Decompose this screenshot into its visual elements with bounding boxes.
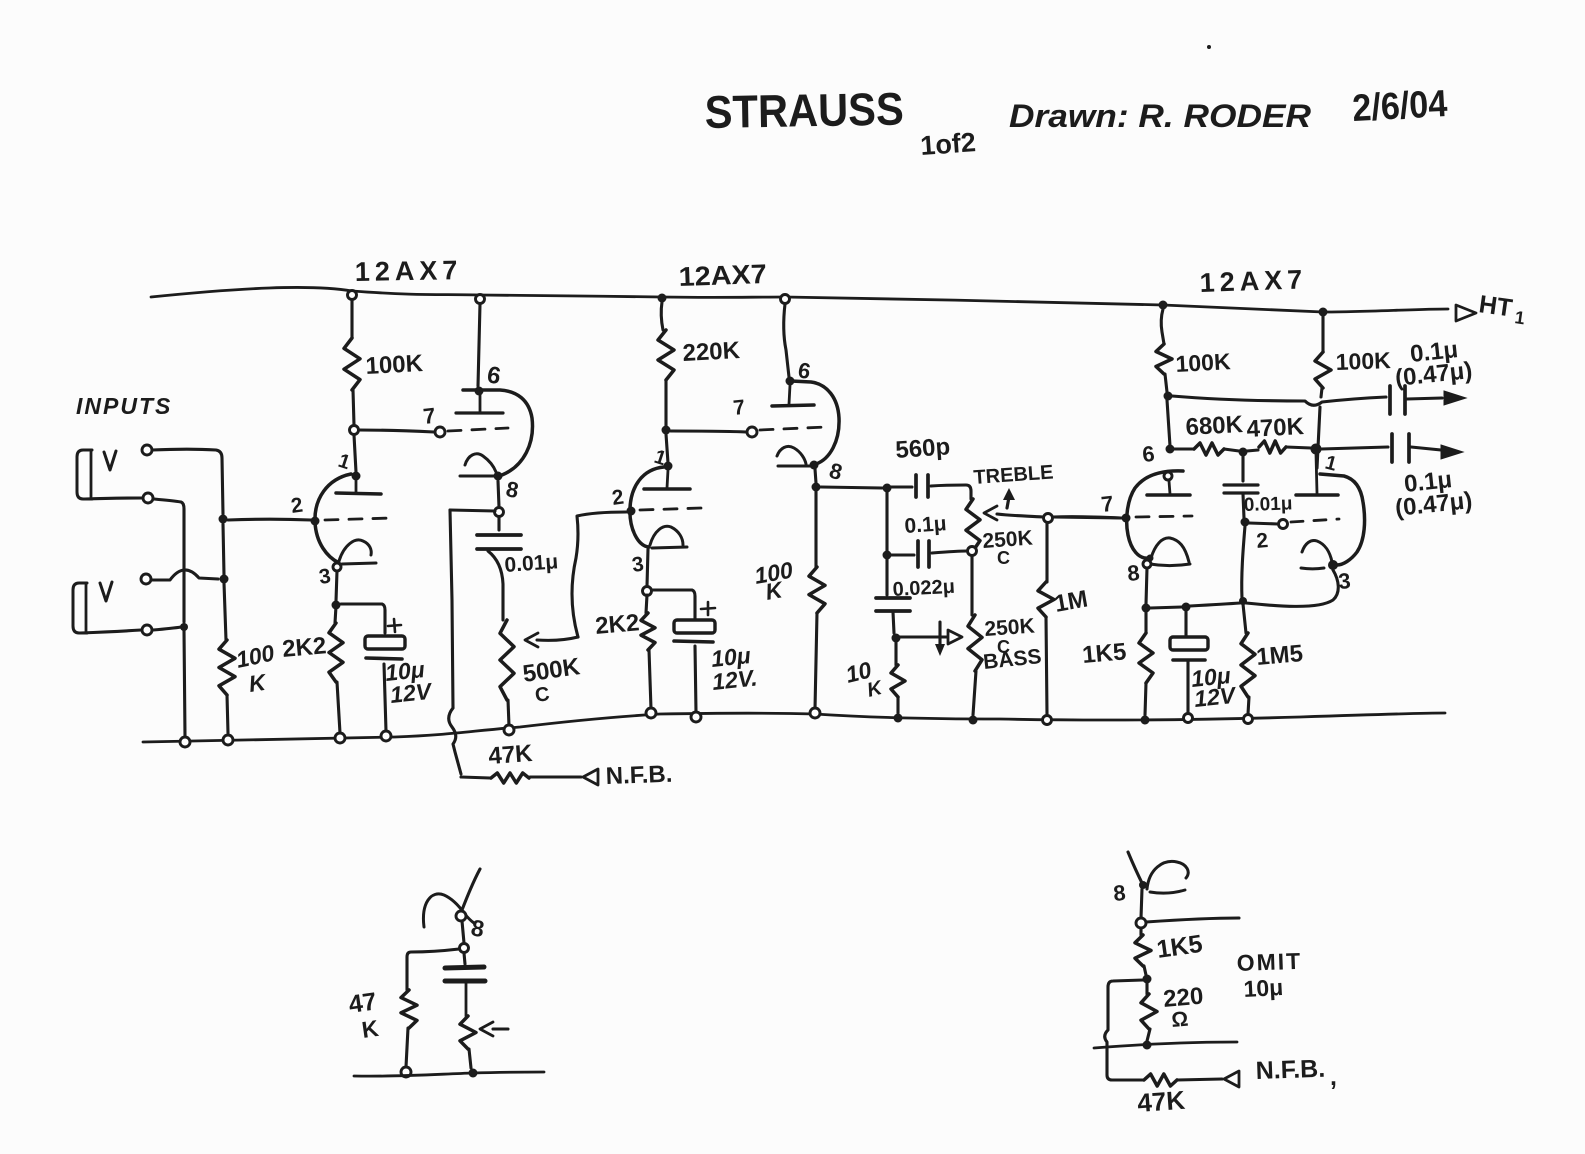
svg-text:1of2: 1of2	[919, 127, 976, 161]
wire bottom rail	[143, 713, 1445, 742]
svg-text:100K: 100K	[1175, 348, 1232, 377]
wire pin8 to tone stack	[821, 487, 882, 488]
svg-text:470K: 470K	[1246, 413, 1305, 443]
triode V1b envelope	[463, 390, 532, 475]
junction 220K at rail	[658, 294, 667, 303]
label 47 left sub	[347, 987, 381, 1043]
svg-text:OMIT: OMIT	[1236, 948, 1302, 976]
junction tone mid	[883, 551, 892, 560]
svg-text:STRAUSS: STRAUSS	[704, 83, 904, 138]
terminal 1M at rail	[1043, 716, 1052, 725]
treble up arrow	[1003, 488, 1015, 508]
junction bass wiper node	[892, 634, 901, 643]
junction stage3 right at rail	[1319, 308, 1328, 317]
label pin2 V2a	[610, 486, 625, 510]
label 12V stage3	[1193, 682, 1238, 712]
label 10u stage2	[710, 642, 752, 672]
label 1K5 right sub	[1155, 930, 1204, 964]
capacitor 0.01u stage3	[1224, 455, 1258, 518]
capacitor 0.1u out2	[1392, 434, 1441, 462]
pot 500K wiper arrow	[525, 633, 578, 647]
label pin1 V3b	[1323, 452, 1339, 476]
label NFB stage1	[605, 761, 673, 790]
jack J1 tip terminal	[142, 445, 152, 455]
triode V3b plate lead	[1316, 454, 1317, 493]
resistor 2K2 stage2	[641, 595, 655, 709]
resistor 220K	[658, 330, 674, 380]
triode V3a envelope	[1127, 471, 1183, 558]
junction bass at rail	[969, 716, 978, 725]
wire J1 sleeve	[85, 498, 142, 499]
label pin8 left sub	[469, 914, 486, 942]
triode V3a grid dashes	[1136, 516, 1192, 517]
label pin1 V2a	[651, 446, 668, 470]
arrow NFB stage1	[583, 769, 598, 785]
terminal 10u s3 at rail	[1184, 714, 1193, 723]
junction grid entry V1a	[311, 517, 320, 526]
triode V3a cathode	[1150, 538, 1190, 566]
svg-text:8: 8	[1126, 560, 1140, 586]
wire grid dashes V1b	[448, 428, 508, 431]
wire output1	[1172, 396, 1386, 405]
svg-text:N.F.B.: N.F.B.	[605, 761, 673, 790]
triode V1a grid dashes	[325, 518, 392, 520]
svg-text:,: ,	[1330, 1063, 1337, 1091]
wire to pin2 V3b	[1249, 523, 1278, 524]
resistor 1K5 right sub	[1135, 928, 1151, 975]
pin 2 terminal V3b	[1279, 520, 1288, 529]
capacitor 10u stage2	[674, 620, 715, 642]
wire J2 tip with hop	[152, 570, 218, 580]
junction sleeve line	[180, 623, 188, 631]
junction plate node stage2	[662, 426, 671, 435]
wire tone vertical	[885, 492, 888, 551]
terminal 100K at rail	[223, 735, 233, 745]
label 680K	[1185, 411, 1244, 441]
terminal 500K at rail	[504, 725, 514, 735]
label 1K5 stage3	[1081, 638, 1127, 669]
svg-text:7: 7	[422, 403, 437, 429]
terminal 1M5 at rail	[1244, 715, 1253, 724]
capacitor 0.1u out1	[1390, 386, 1442, 414]
jack J2 tip terminal	[141, 574, 151, 584]
potentiometer 500K	[500, 620, 514, 726]
svg-text:1K5: 1K5	[1081, 638, 1127, 669]
terminal V2b pin6 at rail	[781, 295, 790, 304]
wire cathode V3a down	[1146, 568, 1147, 604]
resistor 47K left sub	[401, 990, 417, 1067]
potentiometer treble 250K	[966, 499, 980, 551]
wire J1 sleeve to ground line	[154, 499, 184, 622]
label 12AX7 second	[678, 259, 767, 292]
wire 680K line lead	[1167, 400, 1170, 446]
capacitor 0.1u tone	[891, 541, 967, 567]
svg-text:0.022μ: 0.022μ	[892, 576, 955, 601]
svg-text:100K: 100K	[365, 350, 424, 380]
wire 100K s3 left bottom	[1165, 374, 1167, 392]
wire ground line down	[184, 630, 185, 737]
label 470K	[1246, 413, 1305, 443]
label 100K stage3 left	[1175, 348, 1232, 377]
junction V3b cathode net	[1239, 597, 1247, 605]
jack J1 barrel	[77, 450, 92, 499]
wire 220K top lead	[661, 302, 663, 330]
label 1M	[1052, 586, 1090, 618]
wire 10u node right	[1190, 603, 1240, 606]
wire stub top left sub	[462, 869, 480, 910]
pin 3 terminal V2a	[643, 587, 652, 596]
label bass C	[997, 637, 1010, 657]
wire 10u s3 lead	[1184, 611, 1187, 635]
svg-text:Ω: Ω	[1170, 1008, 1189, 1032]
junction input node J2 tip	[220, 575, 229, 584]
label BASS	[982, 645, 1042, 674]
label HT1	[1477, 290, 1526, 328]
label pin3 V1a	[317, 565, 332, 589]
junction tone stack input	[883, 484, 892, 493]
triode V2a cathode	[650, 526, 687, 548]
label 2K2 stage2	[594, 609, 640, 640]
label treble C	[997, 548, 1010, 568]
wire cathode V1a down	[336, 571, 337, 601]
svg-text:12V: 12V	[389, 678, 434, 708]
label 500K	[521, 653, 582, 688]
svg-text:0.01μ: 0.01μ	[1243, 493, 1292, 516]
svg-text:1M: 1M	[1052, 586, 1090, 618]
svg-text:12AX7: 12AX7	[1199, 264, 1308, 298]
capacitor 10u stage1	[365, 636, 405, 659]
triode V2b cathode	[777, 446, 812, 466]
wire 100K s3 left lead	[1161, 309, 1164, 344]
wire grid stage1	[228, 518, 311, 522]
wire to 10u stage2	[652, 590, 695, 619]
wire V1b plate lead	[478, 304, 480, 386]
label pin1 V1a	[335, 450, 352, 474]
potentiometer bass 250K	[968, 556, 982, 715]
svg-text:10μ: 10μ	[1243, 974, 1284, 1002]
wire output2	[1321, 447, 1388, 449]
junction 10K at rail	[894, 714, 903, 723]
wire 10u stage1 down	[384, 664, 386, 731]
wire J2 sleeve	[80, 630, 141, 633]
triode V1b cathode	[460, 454, 496, 476]
wire node to 47K left sub	[407, 949, 459, 990]
label pin2 V1a	[289, 494, 304, 518]
terminal 2K2 at rail	[335, 733, 345, 743]
junction input node grid tap	[219, 515, 228, 524]
junction output1 tap	[1164, 392, 1173, 401]
label TREBLE	[973, 461, 1054, 489]
label 10u stage3	[1190, 662, 1232, 692]
svg-text:47K: 47K	[488, 740, 534, 770]
arrow output1	[1444, 391, 1466, 405]
triode V3b envelope	[1320, 474, 1365, 565]
arrow output2	[1441, 445, 1463, 459]
label pin2 V3b	[1255, 529, 1269, 553]
wire NFB to arrow	[530, 775, 581, 778]
wire HT rail	[151, 287, 1448, 312]
wire pin3 swoop	[1246, 570, 1338, 606]
junction output2 tap	[1311, 444, 1322, 455]
svg-text:220K: 220K	[682, 337, 741, 367]
junction pot at rail left sub	[469, 1069, 478, 1078]
label 12AX7 first	[355, 255, 463, 287]
capacitor left sub	[445, 953, 485, 1016]
stray mark	[1207, 45, 1211, 49]
wire wiper to stage2 grid	[572, 512, 626, 637]
label pin6 V2b	[796, 357, 812, 384]
terminal ground line at rail	[180, 737, 190, 747]
svg-text:47K: 47K	[1136, 1085, 1186, 1118]
junction 680K-470K	[1239, 448, 1248, 457]
svg-text:680K: 680K	[1185, 411, 1244, 441]
label 100K stage1	[365, 350, 424, 380]
label omit 10u	[1243, 974, 1284, 1002]
jack J2 barrel	[73, 583, 87, 633]
capacitor 560p	[888, 475, 971, 499]
wire pin8 down left sub	[462, 921, 464, 943]
wire cathode to 10u s3	[1150, 607, 1182, 608]
capacitor 10u stage2 plus	[701, 602, 715, 615]
label 47K right sub	[1136, 1085, 1186, 1118]
triode V2a envelope	[630, 467, 664, 547]
svg-text:12V: 12V	[1193, 682, 1238, 712]
terminal V1b pin6 at rail	[476, 295, 485, 304]
triode cathode arc right sub	[1147, 861, 1188, 893]
label 10K	[843, 656, 886, 701]
wire pin8 down right sub	[1141, 889, 1142, 918]
label NFB right sub	[1255, 1055, 1337, 1091]
bass down arrow	[935, 622, 945, 656]
svg-text:1M5: 1M5	[1255, 640, 1304, 671]
wire input node down	[223, 524, 224, 575]
wire node to NFB line	[450, 510, 495, 511]
wire pin8 to node	[498, 481, 499, 507]
triode V1a cathode	[339, 540, 376, 564]
resistor 47K NFB	[461, 773, 529, 783]
terminal 10u stage2 at rail	[691, 712, 701, 722]
label 0.1u out2	[1394, 466, 1474, 522]
junction cathode net V1a	[332, 601, 341, 610]
terminal plate R at HT rail	[348, 291, 357, 300]
junction V1b pin6	[475, 387, 484, 396]
wire plate R to node	[353, 390, 354, 425]
svg-text:INPUTS: INPUTS	[76, 393, 172, 419]
svg-text:560p: 560p	[895, 433, 951, 464]
junction plate-envelope V2a	[664, 462, 673, 471]
jack J2 tip contact	[100, 582, 112, 601]
wire 10u stage2 down	[695, 646, 696, 712]
title date 2/6/04	[1351, 83, 1448, 130]
resistor 100K stage1 plate	[344, 338, 360, 390]
triode V2b plate bar	[772, 405, 814, 406]
svg-text:2: 2	[1255, 529, 1269, 553]
node treble bottom	[968, 547, 977, 556]
wire plate R lead	[350, 300, 353, 338]
junction grid entry V3a	[1122, 514, 1131, 523]
title STRAUSS	[704, 83, 904, 138]
terminal HT1 arrow	[1456, 305, 1476, 321]
resistor 100K stage3 right	[1315, 352, 1331, 388]
pin 6 terminal V3a	[1164, 472, 1172, 480]
terminal 100K tail at rail	[810, 708, 820, 718]
triode V1a envelope	[315, 474, 351, 563]
wire NFB vertical	[449, 510, 461, 774]
label 0.01u stage3	[1243, 493, 1292, 516]
jack J2 sleeve terminal	[142, 625, 152, 635]
label pin8 V2b	[827, 458, 845, 485]
triode V2a grid dashes	[640, 508, 702, 510]
title sheet number 1of2	[919, 127, 976, 161]
label pin6 V1b	[485, 361, 503, 390]
svg-text:12AX7: 12AX7	[678, 259, 767, 292]
label 220K	[682, 337, 741, 367]
wire grid stage3	[1053, 517, 1121, 518]
jack J1 sleeve terminal	[143, 493, 153, 503]
resistor 100K input grid	[219, 640, 235, 695]
wire cathode V2a down	[647, 549, 648, 586]
wire horizontal right sub	[1094, 1042, 1237, 1048]
wire plate node to pin7 V2b	[671, 431, 746, 432]
label 100K stage3 right	[1335, 347, 1391, 375]
wire treble out to stage3	[1053, 517, 1121, 518]
svg-text:0.1μ: 0.1μ	[904, 512, 948, 538]
label 12AX7 third	[1199, 264, 1308, 298]
wire J1 tip to node	[152, 449, 223, 514]
svg-text:Drawn: R. RODER: Drawn: R. RODER	[1009, 98, 1311, 134]
svg-text:2K2: 2K2	[281, 632, 327, 663]
jack J1 tip contact	[104, 451, 116, 470]
svg-text:12V.: 12V.	[711, 664, 759, 695]
node treble out	[1044, 514, 1053, 523]
label 0.022u	[892, 576, 955, 601]
wire plate node to pin7	[359, 430, 434, 432]
label pin8 V1b	[504, 476, 520, 503]
wire left loop right sub	[1105, 980, 1143, 1080]
capacitor 10u stage3	[1170, 637, 1208, 660]
resistor 220 right sub	[1141, 983, 1157, 1041]
capacitor 10u stage1 plus	[388, 619, 401, 632]
capacitor 0.01u stage1	[477, 517, 521, 620]
svg-text:C: C	[534, 683, 551, 707]
wire rail left sub	[354, 1072, 544, 1076]
label 47K NFB stage1	[488, 740, 534, 770]
junction grid tap V3b	[1241, 518, 1250, 527]
resistor 2K2 stage1	[329, 606, 343, 733]
junction 10u s3 top	[1182, 603, 1191, 612]
label 220 right sub	[1162, 983, 1204, 1013]
svg-text:7: 7	[732, 396, 746, 420]
wire pin8 V2b down	[815, 469, 816, 483]
junction cathode node V2b	[812, 483, 821, 492]
wire to 10u stage1	[341, 604, 385, 633]
wire 10u s3 down	[1186, 661, 1189, 713]
junction pin8 left sub	[456, 911, 466, 921]
svg-text:47: 47	[347, 987, 378, 1019]
label 2K2 stage1	[281, 632, 327, 663]
label 1M5	[1255, 640, 1304, 671]
triode V1b plate bar	[456, 393, 503, 413]
capacitor 0.022u	[876, 559, 910, 633]
label 500K C	[534, 683, 551, 707]
resistor 1M5	[1241, 604, 1255, 714]
resistor 47K NFB right sub	[1112, 1074, 1222, 1086]
pin 3 terminal V1a	[333, 563, 341, 571]
label pin7 V3a	[1100, 491, 1115, 517]
resistor 1K5 stage3	[1139, 611, 1153, 715]
resistor 10K	[891, 641, 905, 713]
svg-text:N.F.B.: N.F.B.	[1255, 1055, 1325, 1085]
wire node right sub to right	[1146, 918, 1239, 922]
label 0.1u tone	[904, 512, 948, 538]
label 0.1u out1	[1394, 336, 1474, 392]
potentiometer left sub	[460, 1016, 476, 1068]
label ohm right sub	[1170, 1008, 1189, 1032]
resistor 470K	[1247, 441, 1311, 453]
pin 7 terminal V2b	[747, 427, 757, 437]
wire grid dashes V2b	[760, 427, 826, 430]
label pin7 V1b	[422, 403, 437, 429]
label 12V stage1	[389, 678, 434, 708]
triode cathode arc left sub	[423, 894, 474, 927]
junction 220 bottom right sub	[1143, 1041, 1152, 1050]
node plate stage1	[350, 426, 359, 435]
wire V2b plate lead	[784, 304, 789, 377]
wire plate node down	[354, 435, 356, 472]
svg-text:0.01μ: 0.01μ	[504, 550, 559, 577]
node right sub	[1136, 918, 1146, 928]
wire J2 sleeve to ground line	[153, 627, 181, 630]
wire input node to 100K	[224, 583, 226, 640]
label pin3 V2a	[630, 553, 645, 577]
svg-text:7: 7	[1100, 491, 1115, 517]
label 12V stage2	[711, 664, 759, 695]
junction pin8 V2b	[810, 461, 819, 470]
pot treble wiper arrow	[984, 506, 1043, 520]
arrow NFB right sub	[1224, 1071, 1239, 1087]
junction 1K5 at rail	[1141, 716, 1150, 725]
label pin6 V3a	[1141, 441, 1155, 467]
wire 100K s3 right bottom	[1317, 388, 1322, 468]
resistor 100K stage3 left	[1156, 344, 1172, 374]
label pin7 V2b	[732, 396, 746, 420]
terminal 47K left sub	[401, 1067, 411, 1077]
node cathode V1b	[495, 508, 504, 517]
svg-text:C: C	[997, 548, 1010, 568]
label 0.01u stage1	[504, 550, 559, 577]
junction 680K left	[1166, 445, 1175, 454]
pot wiper arrow left sub	[480, 1022, 508, 1036]
label 560p	[895, 433, 951, 464]
arrow bass wiper	[948, 630, 962, 644]
label treble 250K	[982, 527, 1034, 553]
svg-text:HT: HT	[1477, 290, 1514, 322]
wire 0.01u down	[1242, 526, 1245, 599]
terminal 2K2 stage2 at rail	[646, 708, 656, 718]
junction cathode V3a	[1142, 604, 1151, 613]
triode V1a plate lead	[355, 479, 358, 492]
node left sub	[460, 944, 469, 953]
label pin8 V3a	[1126, 560, 1140, 586]
wire 100K s3 right lead	[1321, 316, 1324, 352]
junction grid entry V2a	[627, 507, 636, 516]
triode V3b cathode	[1301, 540, 1332, 568]
svg-text:12AX7: 12AX7	[355, 255, 463, 287]
junction 1K5-220 right sub	[1143, 975, 1152, 984]
wire stub top right sub	[1128, 852, 1143, 885]
triode V2b plate lead inner	[789, 385, 790, 404]
label pin8 right sub	[1112, 880, 1126, 906]
